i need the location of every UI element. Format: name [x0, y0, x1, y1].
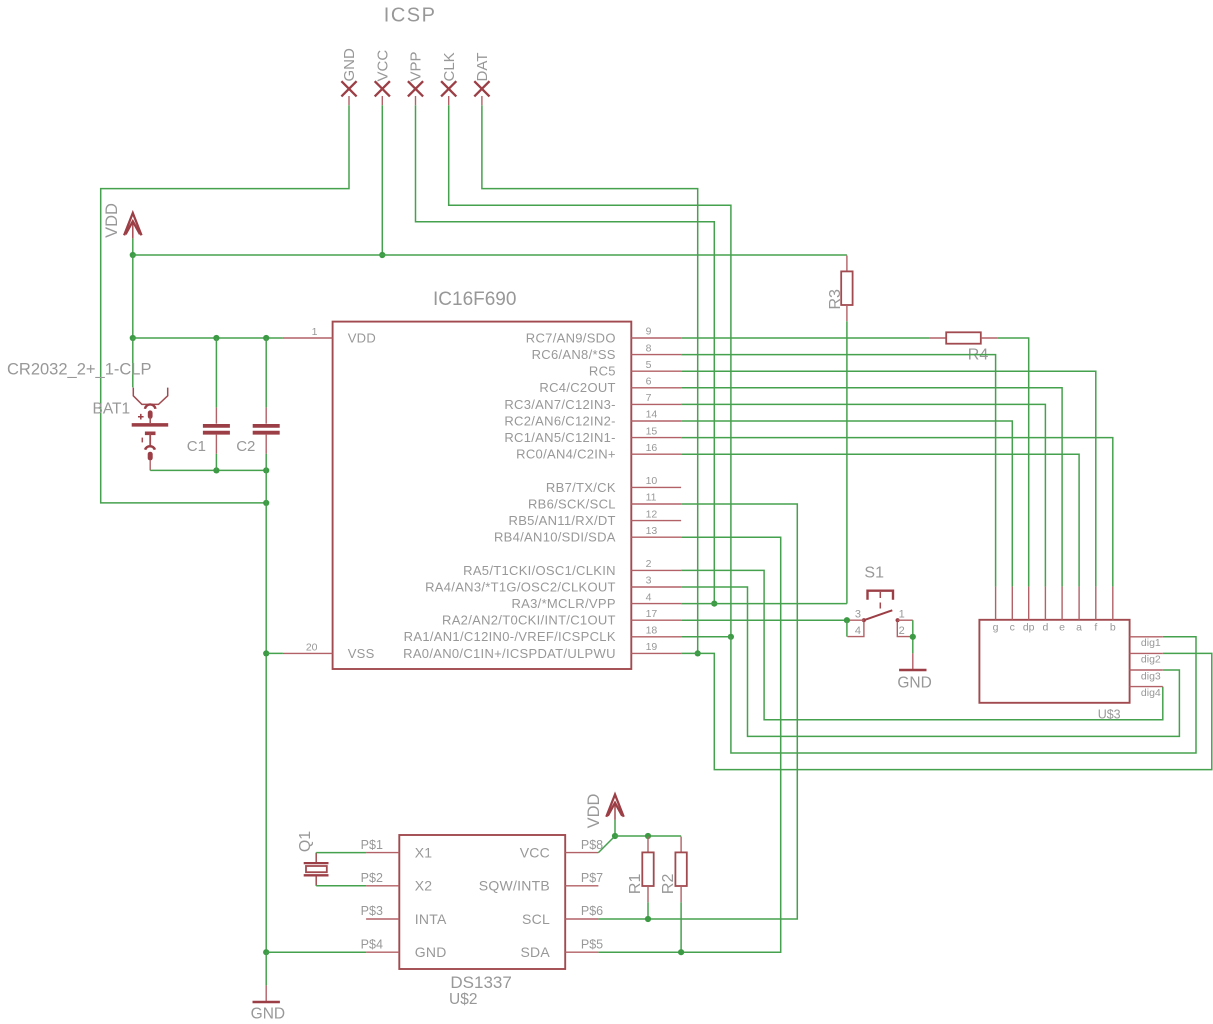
node junction R1 top [645, 833, 651, 839]
pin f (U$3) [1095, 587, 1097, 620]
wire VPP net (ICSP VPP to MCLR row) [416, 105, 715, 603]
svg-text:dig1: dig1 [1141, 637, 1161, 649]
wire IC row to display segment b [681, 438, 1113, 587]
svg-text:R2: R2 [660, 874, 677, 895]
wire IC row to display segment f [681, 371, 1096, 586]
pin 7 RC3/AN7/C12IN3- (IC16F690) [631, 403, 681, 405]
node junction VDD/pin1 row [130, 335, 136, 341]
svg-text:g: g [993, 622, 999, 634]
svg-text:9: 9 [646, 326, 652, 338]
ICSP pin GND [341, 81, 356, 96]
pin 17 RA2/AN2/T0CKI/INT/C1OUT (IC16F690) [631, 619, 681, 621]
node junction VDD rail left [130, 252, 136, 258]
wire VCC net (ICSP VCC to VDD rail) [381, 105, 383, 255]
pin 10 RB7/TX/CK (IC16F690) [631, 486, 681, 488]
svg-text:c: c [1010, 622, 1015, 634]
ground symbol GND (bottom left) [265, 985, 267, 1001]
wire Q1 to X1 [316, 852, 366, 854]
wire VDD rail (to R3) [133, 254, 847, 256]
ground symbol GND (S1) [912, 653, 914, 669]
wire VDD pin1 row (to IC VDD) [133, 337, 283, 339]
wire S1 pin1 to pin2 to GND [912, 620, 914, 653]
pin 1 VDD (IC16F690) [283, 337, 333, 339]
svg-text:CLK: CLK [441, 52, 458, 81]
display U$3 body [979, 620, 1129, 703]
wire RA5 to display dig4 [681, 570, 1163, 719]
pin 19 RA0/AN0/C1IN+/ICSPDAT/ULPWU (IC16F690) [631, 652, 681, 654]
svg-text:3: 3 [646, 575, 652, 587]
svg-text:RA1/AN1/C12IN0-/VREF/ICSPCLK: RA1/AN1/C12IN0-/VREF/ICSPCLK [404, 629, 616, 644]
svg-text:dig3: dig3 [1141, 670, 1161, 682]
svg-text:10: 10 [646, 475, 658, 487]
IC U$2 DS1337 body [399, 835, 565, 969]
pin P$4 GND (DS1337) [366, 951, 399, 953]
wire DAT net (ICSP DAT to RA0/ICSPDAT row) [482, 105, 698, 653]
pin 12 RB5/AN11/RX/DT (IC16F690) [631, 520, 681, 522]
pin P$3 INTA (DS1337) [366, 918, 399, 920]
svg-text:RB4/AN10/SDI/SDA: RB4/AN10/SDI/SDA [494, 530, 616, 545]
svg-text:RC7/AN9/SDO: RC7/AN9/SDO [526, 330, 616, 345]
node junction VPP/MCLR [711, 601, 717, 607]
svg-text:BAT1: BAT1 [93, 400, 131, 417]
wire DS1337 VCC to VDD [598, 836, 615, 853]
node junction R2/SDA [678, 949, 684, 955]
node junction S1 pin2 [910, 634, 916, 640]
pin b (U$3) [1112, 587, 1114, 620]
svg-text:VDD: VDD [585, 794, 603, 829]
svg-text:X1: X1 [415, 844, 433, 860]
pin 15 RC1/AN5/C12IN1- (IC16F690) [631, 437, 681, 439]
pin 8 RC6/AN8/*SS (IC16F690) [631, 354, 681, 356]
pin d (U$3) [1044, 587, 1046, 620]
wire CLK net (ICSP CLK to RA1/ICSPCLK row) [449, 105, 731, 637]
svg-text:dig4: dig4 [1141, 687, 1161, 699]
pin 16 RC0/AN4/C2IN+ (IC16F690) [631, 453, 681, 455]
svg-text:VDD: VDD [348, 330, 376, 345]
node junction C1 top [213, 335, 219, 341]
node junction C2 top [263, 335, 269, 341]
svg-text:C2: C2 [236, 438, 255, 455]
pin P$5 SDA (DS1337) [565, 951, 598, 953]
svg-text:ICSP: ICSP [384, 5, 437, 27]
svg-text:P$4: P$4 [361, 937, 383, 951]
svg-text:RB6/SCK/SCL: RB6/SCK/SCL [528, 496, 616, 511]
node junction VCC/VDD rail [379, 252, 385, 258]
pin 11 RB6/SCK/SCL (IC16F690) [631, 503, 681, 505]
svg-text:1: 1 [899, 608, 905, 620]
svg-text:GND: GND [415, 944, 447, 960]
resistor R3 [846, 256, 848, 272]
wire R3 to MCLR row [846, 321, 848, 603]
wire ground vertical (C2 to DS1337 GND) [265, 454, 267, 952]
pin 4 RA3/*MCLR/VPP (IC16F690) [631, 603, 681, 605]
crystal Q1 [315, 853, 317, 862]
power symbol VDD (top left) [124, 213, 141, 235]
svg-text:a: a [1076, 622, 1082, 634]
wire pin18 stub to CLK column [681, 636, 731, 638]
svg-text:GND: GND [251, 1006, 285, 1023]
pin 20 VSS (IC16F690) [283, 652, 333, 654]
ICSP pin CLK [441, 81, 456, 96]
svg-text:S1: S1 [864, 564, 884, 581]
svg-text:VCC: VCC [375, 50, 392, 82]
svg-text:4: 4 [646, 591, 652, 603]
svg-text:IC16F690: IC16F690 [433, 289, 516, 310]
pin P$8 VCC (DS1337) [565, 852, 598, 854]
battery BAT1 (CR2032 holder) [133, 388, 167, 405]
svg-text:U$2: U$2 [449, 991, 477, 1008]
ICSP pin VPP [408, 81, 423, 96]
svg-text:VSS: VSS [348, 646, 375, 661]
wire Q1 to X2 [316, 885, 366, 887]
svg-text:1: 1 [312, 326, 318, 338]
wire battery minus to C1/C2 bottom [150, 469, 266, 471]
svg-text:SQW/INTB: SQW/INTB [479, 878, 550, 894]
svg-text:8: 8 [646, 342, 652, 354]
wire RA2 to switch S1 [681, 619, 847, 621]
svg-text:P$2: P$2 [361, 871, 383, 885]
wire pin19 to dig2 run [681, 653, 1212, 769]
svg-text:RC2/AN6/C12IN2-: RC2/AN6/C12IN2- [504, 413, 615, 428]
pin dig3 (U$3) [1130, 669, 1163, 671]
pin P$7 SQW/INTB (DS1337) [565, 885, 598, 887]
svg-text:P$8: P$8 [581, 838, 603, 852]
svg-text:d: d [1042, 622, 1048, 634]
svg-text:e: e [1059, 622, 1065, 634]
svg-text:6: 6 [646, 376, 652, 388]
ICSP pin VCC [375, 81, 390, 96]
node junction VDD/VCC [612, 833, 618, 839]
svg-text:P$3: P$3 [361, 904, 383, 918]
pin P$6 SCL (DS1337) [565, 918, 598, 920]
pin 5 RC5 (IC16F690) [631, 370, 681, 372]
svg-text:DAT: DAT [474, 53, 491, 82]
svg-text:19: 19 [646, 641, 658, 653]
pin g (U$3) [995, 587, 997, 620]
svg-text:U$3: U$3 [1098, 708, 1121, 722]
svg-text:15: 15 [646, 425, 658, 437]
wire VSS to ground [266, 652, 283, 654]
svg-text:R3: R3 [827, 289, 844, 310]
svg-text:dig2: dig2 [1141, 654, 1161, 666]
capacitor C1 [215, 338, 217, 408]
svg-text:SCL: SCL [522, 911, 550, 927]
svg-text:dp: dp [1023, 622, 1035, 634]
svg-text:16: 16 [646, 442, 658, 454]
wire VDD to R1 R2 [615, 835, 681, 837]
node junction VSS [263, 650, 269, 656]
svg-text:DS1337: DS1337 [450, 973, 511, 992]
svg-text:RA0/AN0/C1IN+/ICSPDAT/ULPWU: RA0/AN0/C1IN+/ICSPDAT/ULPWU [403, 646, 616, 661]
svg-text:RC5: RC5 [589, 364, 616, 379]
pin a (U$3) [1078, 587, 1080, 620]
node junction C2 bottom [263, 467, 269, 473]
wire RA4 to display dig3 [681, 587, 1179, 736]
svg-text:11: 11 [646, 492, 657, 504]
pin 14 RC2/AN6/C12IN2- (IC16F690) [631, 420, 681, 422]
svg-text:13: 13 [646, 525, 658, 537]
wire IC row to display segment d [681, 404, 1045, 586]
pin 2 RA5/T1CKI/OSC1/CLKIN (IC16F690) [631, 569, 681, 571]
node junction R1/SCL [645, 916, 651, 922]
svg-text:VCC: VCC [520, 844, 550, 860]
svg-text:R1: R1 [627, 874, 644, 895]
svg-text:12: 12 [646, 508, 658, 520]
wire IC row to display segment c [681, 421, 1012, 587]
wire RC7 to R4 [681, 337, 930, 339]
svg-text:f: f [1094, 622, 1097, 634]
wire IC row to display segment g [681, 355, 996, 587]
pin dp (U$3) [1028, 587, 1030, 620]
svg-text:X2: X2 [415, 878, 433, 894]
svg-text:RC6/AN8/*SS: RC6/AN8/*SS [532, 347, 616, 362]
power symbol VDD (DS1337) [606, 795, 623, 817]
op-amp U1 IC16F690 body [333, 322, 632, 669]
wire R1 to SCL [647, 902, 649, 919]
svg-text:VDD: VDD [103, 203, 121, 238]
svg-text:SDA: SDA [520, 944, 550, 960]
svg-text:RB7/TX/CK: RB7/TX/CK [546, 480, 616, 495]
pin dig4 (U$3) [1130, 686, 1163, 688]
pin P$2 X2 (DS1337) [366, 885, 399, 887]
svg-text:RC0/AN4/C2IN+: RC0/AN4/C2IN+ [516, 447, 616, 462]
capacitor C2 [265, 338, 267, 408]
svg-text:20: 20 [306, 641, 318, 653]
pin 13 RB4/AN10/SDI/SDA (IC16F690) [631, 536, 681, 538]
node junction DAT/RA0 [695, 650, 701, 656]
pin P$1 X1 (DS1337) [366, 852, 399, 854]
wire IC row to display segment a [681, 454, 1079, 586]
wire R4 to display dp [997, 338, 1028, 587]
svg-text:17: 17 [646, 608, 658, 620]
svg-text:2: 2 [899, 625, 905, 637]
node junction CLK/RA1 [728, 634, 734, 640]
pin dig1 (U$3) [1130, 636, 1163, 638]
wire CLK column down to dig1 run [731, 637, 1196, 753]
node junction GND rail [263, 500, 269, 506]
svg-text:RA3/*MCLR/VPP: RA3/*MCLR/VPP [511, 596, 615, 611]
node junction S1 pin3/4 [844, 617, 850, 623]
svg-text:RB5/AN11/RX/DT: RB5/AN11/RX/DT [509, 513, 616, 528]
resistor R4 [930, 337, 947, 339]
svg-text:4: 4 [855, 625, 861, 637]
svg-text:RC3/AN7/C12IN3-: RC3/AN7/C12IN3- [504, 397, 615, 412]
resistor R2 [680, 837, 682, 853]
wire VDD vertical to pin1 row [132, 255, 134, 338]
svg-text:RA5/T1CKI/OSC1/CLKIN: RA5/T1CKI/OSC1/CLKIN [463, 563, 616, 578]
wire DS1337 GND to ground [266, 951, 366, 953]
svg-text:INTA: INTA [415, 911, 447, 927]
pin c (U$3) [1011, 587, 1013, 620]
wire VDD to battery [132, 338, 134, 387]
svg-text:18: 18 [646, 625, 658, 637]
wire RB6/SCL to DS1337 SCL [598, 504, 797, 919]
pin 9 RC7/AN9/SDO (IC16F690) [631, 337, 681, 339]
svg-text:RA4/AN3/*T1G/OSC2/CLKOUT: RA4/AN3/*T1G/OSC2/CLKOUT [425, 579, 616, 594]
svg-text:GND: GND [341, 48, 358, 82]
wire GND net (ICSP GND to ground rail) [101, 105, 349, 503]
wire RA3/MCLR row to R3 [681, 603, 847, 605]
resistor R1 [647, 837, 649, 853]
svg-text:CR2032_2+_1-CLP: CR2032_2+_1-CLP [7, 361, 151, 379]
pin 18 RA1/AN1/C12IN0-/VREF/ICSPCLK (IC16F690) [631, 636, 681, 638]
svg-text:7: 7 [646, 392, 652, 404]
svg-text:b: b [1110, 622, 1116, 634]
pin dig2 (U$3) [1130, 652, 1163, 654]
node junction C1 bottom [213, 467, 219, 473]
wire R2 to SDA [680, 902, 682, 952]
svg-text:VPP: VPP [408, 51, 425, 81]
node junction DS1337 GND row [263, 949, 269, 955]
svg-text:P$6: P$6 [581, 904, 603, 918]
svg-text:P$1: P$1 [361, 838, 383, 852]
pin 3 RA4/AN3/*T1G/OSC2/CLKOUT (IC16F690) [631, 586, 681, 588]
ICSP pin DAT [474, 81, 489, 96]
pin e (U$3) [1061, 587, 1063, 620]
svg-text:14: 14 [646, 409, 658, 421]
svg-text:P$5: P$5 [581, 937, 603, 951]
svg-text:2: 2 [646, 558, 652, 570]
svg-text:RA2/AN2/T0CKI/INT/C1OUT: RA2/AN2/T0CKI/INT/C1OUT [442, 613, 616, 628]
svg-text:Q1: Q1 [297, 831, 314, 852]
svg-text:C1: C1 [187, 438, 206, 455]
switch S1 [868, 591, 894, 600]
svg-text:P$7: P$7 [581, 871, 603, 885]
svg-text:GND: GND [897, 674, 931, 691]
svg-text:RC4/C2OUT: RC4/C2OUT [539, 380, 615, 395]
pin 6 RC4/C2OUT (IC16F690) [631, 387, 681, 389]
wire RB4/SDA to DS1337 SDA [598, 537, 780, 952]
svg-text:RC1/AN5/C12IN1-: RC1/AN5/C12IN1- [504, 430, 615, 445]
svg-text:5: 5 [646, 359, 652, 371]
wire IC row to display segment e [681, 388, 1062, 587]
wire S1 pin3 to pin4 [846, 620, 848, 636]
svg-text:3: 3 [855, 608, 861, 620]
